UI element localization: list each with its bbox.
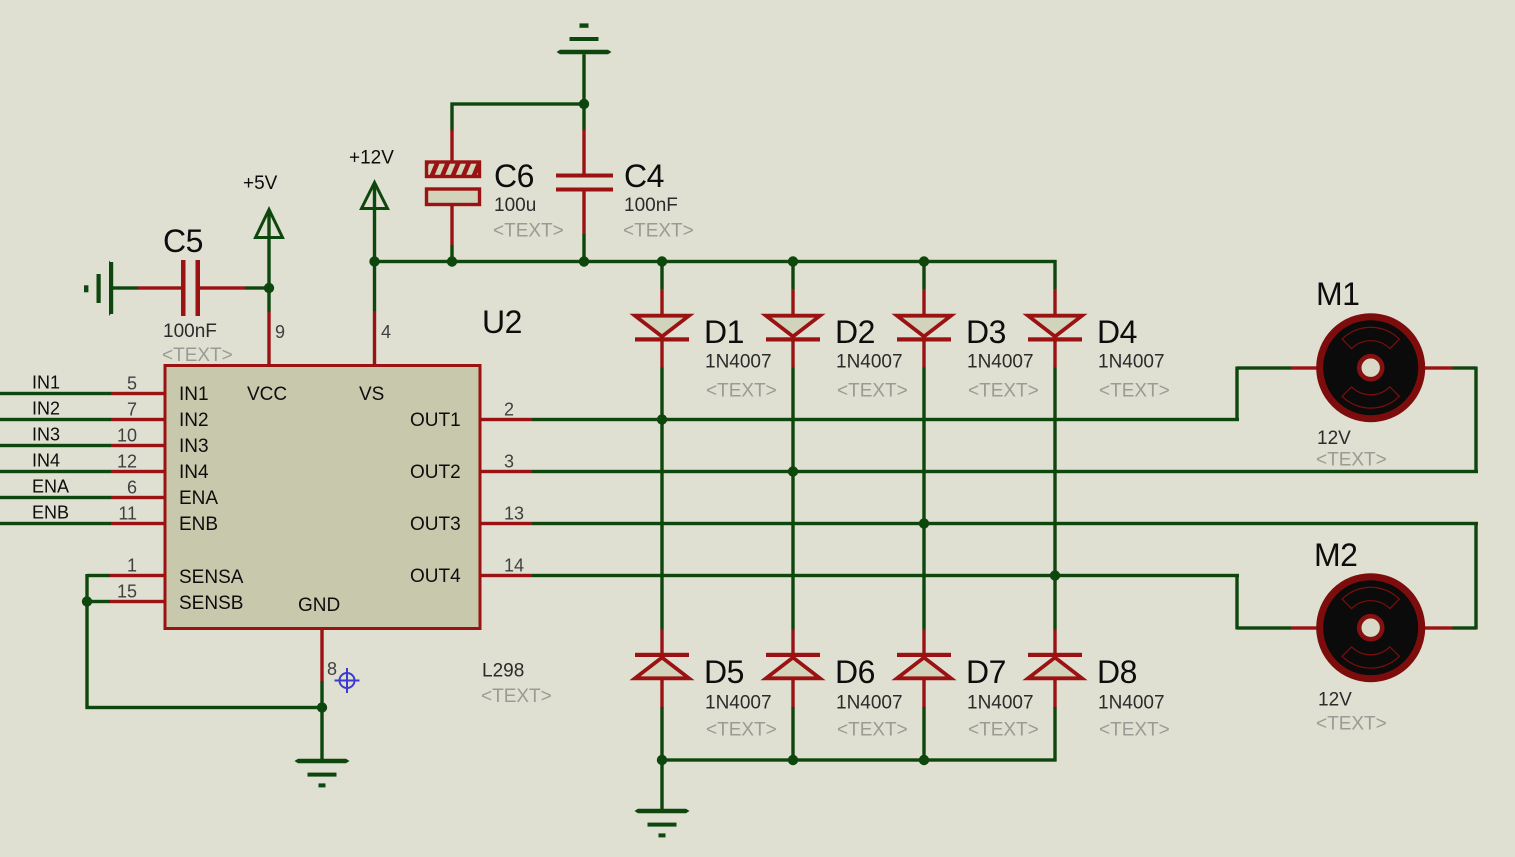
- svg-text:1N4007: 1N4007: [705, 693, 772, 714]
- svg-text:12: 12: [117, 452, 137, 472]
- wire: GND pin 8 down: [320, 630, 323, 709]
- svg-text:1N4007: 1N4007: [1098, 693, 1165, 714]
- svg-text:C6: C6: [494, 158, 534, 194]
- M1 <TEXT> property: [1316, 450, 1387, 471]
- wire: D1 cathode down column: [660, 342, 663, 630]
- svg-text:6: 6: [127, 478, 137, 498]
- svg-text:VS: VS: [359, 384, 384, 405]
- wire: C6 top lead (red): [450, 130, 453, 163]
- M2 refdes label: [1314, 537, 1357, 573]
- pin number 5: [127, 374, 137, 394]
- svg-text:<TEXT>: <TEXT>: [481, 686, 552, 707]
- wire: +12V top bus: [373, 260, 1057, 263]
- junction: C4 to +12V bus: [579, 256, 589, 266]
- D7 <TEXT> property: [968, 720, 1039, 741]
- C5 refdes label: [163, 223, 203, 259]
- junction: D1 anode to +12V bus: [657, 256, 667, 266]
- svg-text:ENA: ENA: [32, 477, 69, 497]
- D8 <TEXT> property: [1099, 720, 1170, 741]
- svg-text:100u: 100u: [494, 195, 536, 216]
- junction: C5 to +5V: [264, 283, 274, 293]
- diode D1 (1N4007): [635, 316, 689, 342]
- wire: GND net to ground symbol: [320, 706, 323, 760]
- D3 value label 1N4007: [967, 352, 1034, 373]
- C4 <TEXT> property: [623, 221, 694, 242]
- U2 refdes label: [482, 304, 522, 340]
- net label IN1: [32, 373, 60, 393]
- wire: ground to C5 left plate: [113, 286, 182, 289]
- svg-text:12V: 12V: [1317, 428, 1351, 449]
- wire: top bus to D1: [660, 260, 663, 316]
- svg-text:<TEXT>: <TEXT>: [968, 720, 1039, 741]
- motor M2: [1320, 577, 1422, 679]
- junction: top node at C6/C4 branch: [579, 99, 589, 109]
- diode D5 (1N4007): [635, 653, 689, 679]
- svg-text:+12V: +12V: [349, 148, 394, 169]
- D2 refdes label: [835, 314, 875, 350]
- svg-text:<TEXT>: <TEXT>: [1316, 714, 1387, 735]
- wire: top bus to D2: [791, 260, 794, 316]
- wire: column to D6 cathode: [791, 630, 794, 654]
- wire: D3 cathode down column: [922, 342, 925, 630]
- wire: net IN4 into pin 12: [0, 470, 165, 473]
- svg-text:15: 15: [117, 582, 137, 602]
- svg-text:GND: GND: [298, 595, 340, 616]
- junction: column D1/D5 to OUT row: [657, 414, 667, 424]
- D8 refdes label: [1097, 654, 1137, 690]
- svg-text:13: 13: [504, 504, 524, 524]
- +5V label: [243, 173, 278, 194]
- pin number 3 (OUT2): [504, 452, 514, 472]
- svg-text:IN4: IN4: [179, 462, 209, 483]
- svg-text:5: 5: [127, 374, 137, 394]
- wire: C4 top lead: [582, 104, 585, 174]
- ground (below D5): [635, 809, 690, 838]
- svg-text:OUT2: OUT2: [410, 462, 461, 483]
- M1 value label 12V: [1317, 428, 1351, 449]
- power +12V symbol: [362, 183, 388, 209]
- net label IN3: [32, 425, 60, 445]
- junction: column D3/D7 to OUT row: [919, 518, 929, 528]
- svg-text:OUT3: OUT3: [410, 514, 461, 535]
- svg-text:D4: D4: [1097, 314, 1137, 350]
- wire: D4 cathode down column: [1053, 342, 1056, 630]
- C6 refdes label: [494, 158, 534, 194]
- origin marker (blue): [335, 668, 360, 693]
- junction: D7 to lower ground bus: [919, 755, 929, 765]
- wire: D2 cathode down column: [791, 342, 794, 630]
- pin number 6: [127, 478, 137, 498]
- svg-text:ENA: ENA: [179, 488, 218, 509]
- svg-text:C4: C4: [624, 158, 664, 194]
- svg-text:<TEXT>: <TEXT>: [1099, 720, 1170, 741]
- svg-text:D6: D6: [835, 654, 875, 690]
- pin number 7: [127, 400, 137, 420]
- svg-text:D7: D7: [966, 654, 1006, 690]
- wire: column to D8 cathode: [1053, 630, 1056, 654]
- capacitor C4 (100nF): [556, 174, 613, 192]
- svg-text:1N4007: 1N4007: [967, 352, 1034, 373]
- pin number 4 (VS): [381, 322, 391, 342]
- wire: top bus to D3: [922, 260, 925, 316]
- svg-text:ENB: ENB: [179, 514, 218, 535]
- wire: column to D5 cathode: [660, 630, 663, 654]
- pin number 10: [117, 426, 137, 446]
- D4 value label 1N4007: [1098, 352, 1165, 373]
- D4 <TEXT> property: [1099, 381, 1170, 402]
- svg-text:1N4007: 1N4007: [1098, 352, 1165, 373]
- diode D3 (1N4007): [897, 316, 951, 342]
- ground (top, above C4): [557, 23, 612, 54]
- D2 <TEXT> property: [837, 381, 908, 402]
- svg-text:11: 11: [118, 504, 137, 524]
- capacitor C6 (100u electrolytic): [420, 160, 491, 205]
- wire: SENSB pin 15: [87, 600, 165, 603]
- svg-text:IN2: IN2: [32, 399, 60, 419]
- diode D4 (1N4007): [1028, 316, 1082, 342]
- svg-text:3: 3: [504, 452, 514, 472]
- svg-text:VCC: VCC: [247, 384, 287, 405]
- C6 <TEXT> property: [493, 221, 564, 242]
- svg-text:12V: 12V: [1318, 690, 1352, 711]
- junction: column D2/D6 to OUT row: [788, 466, 798, 476]
- diode D6 (1N4007): [766, 653, 820, 679]
- wire: lower ground bus: [661, 758, 1057, 761]
- D4 refdes label: [1097, 314, 1137, 350]
- pin number 8 (GND): [327, 659, 337, 679]
- svg-text:100nF: 100nF: [624, 195, 678, 216]
- U2 pin name labels: [179, 384, 461, 616]
- svg-text:1N4007: 1N4007: [836, 352, 903, 373]
- pin number 15 (SENSB): [117, 582, 137, 602]
- svg-text:<TEXT>: <TEXT>: [706, 720, 777, 741]
- D3 <TEXT> property: [968, 381, 1039, 402]
- D1 <TEXT> property: [706, 381, 777, 402]
- D5 value label 1N4007: [705, 693, 772, 714]
- C4 refdes label: [624, 158, 664, 194]
- junction: C6 to +12V bus: [447, 256, 457, 266]
- svg-text:IN3: IN3: [32, 425, 60, 445]
- wire: C6 bottom lead: [450, 206, 453, 262]
- wire: OUT2 pin 3 to M1 right: [480, 366, 1478, 473]
- diode D7 (1N4007): [897, 653, 951, 679]
- M2 value label 12V: [1318, 690, 1352, 711]
- svg-text:D5: D5: [704, 654, 744, 690]
- net label IN2: [32, 399, 60, 419]
- net label IN4: [32, 451, 60, 471]
- svg-text:M1: M1: [1316, 276, 1359, 312]
- wire: column to D7 cathode: [922, 630, 925, 654]
- wire: OUT4 pin 14 to M2 left: [480, 574, 1320, 630]
- svg-text:D1: D1: [704, 314, 744, 350]
- svg-text:<TEXT>: <TEXT>: [1099, 381, 1170, 402]
- svg-text:<TEXT>: <TEXT>: [493, 221, 564, 242]
- C5 value label 100nF: [163, 321, 217, 342]
- wire: C4 bottom lead: [582, 192, 585, 264]
- svg-text:L298: L298: [482, 661, 524, 682]
- junction: D2 anode to +12V bus: [788, 256, 798, 266]
- wire: D5 anode to lower bus: [660, 679, 663, 762]
- pin number 2 (OUT1): [504, 400, 514, 420]
- wire: +5V down to VCC pin 9: [267, 212, 270, 365]
- M1 refdes label: [1316, 276, 1359, 312]
- power +5V symbol: [256, 210, 283, 238]
- svg-text:U2: U2: [482, 304, 522, 340]
- wire: net IN1 into pin 5: [0, 392, 165, 395]
- M2 <TEXT> property: [1316, 714, 1387, 735]
- wire: SENSA pin 1: [85, 574, 165, 603]
- D1 value label 1N4007: [705, 352, 772, 373]
- D2 value label 1N4007: [836, 352, 903, 373]
- pin number 1 (SENSA): [127, 556, 137, 576]
- D5 refdes label: [704, 654, 744, 690]
- wire: D8 anode to lower bus: [1053, 679, 1056, 762]
- op-amp / driver IC U2 body: [165, 366, 480, 629]
- pin number 12: [117, 452, 137, 472]
- wire: net ENA into pin 6: [0, 496, 165, 499]
- svg-text:1N4007: 1N4007: [705, 352, 772, 373]
- svg-text:8: 8: [327, 659, 337, 679]
- svg-text:<TEXT>: <TEXT>: [162, 345, 233, 366]
- pin number 13 (OUT3): [504, 504, 524, 524]
- D7 value label 1N4007: [967, 693, 1034, 714]
- wire: D7 anode to lower bus: [922, 679, 925, 762]
- U2 value label L298: [482, 661, 524, 682]
- svg-text:OUT1: OUT1: [410, 410, 461, 431]
- junction: D6 to lower ground bus: [788, 755, 798, 765]
- svg-text:SENSA: SENSA: [179, 567, 244, 588]
- D1 refdes label: [704, 314, 744, 350]
- svg-text:<TEXT>: <TEXT>: [837, 381, 908, 402]
- junction: GND net: [317, 702, 327, 712]
- svg-text:2: 2: [504, 400, 514, 420]
- U2 <TEXT> property: [481, 686, 552, 707]
- svg-text:<TEXT>: <TEXT>: [706, 381, 777, 402]
- svg-text:1N4007: 1N4007: [967, 693, 1034, 714]
- svg-text:D3: D3: [966, 314, 1006, 350]
- junction: +12V to top bus: [369, 256, 379, 266]
- svg-text:10: 10: [117, 426, 137, 446]
- wire: SENS net down and across to GND net: [85, 600, 323, 709]
- net label ENB: [32, 503, 69, 523]
- +12V label: [349, 148, 394, 169]
- junction: D3 anode to +12V bus: [919, 256, 929, 266]
- svg-text:IN4: IN4: [32, 451, 60, 471]
- wire: net ENB into pin 11: [0, 522, 165, 525]
- C5 <TEXT> property: [162, 345, 233, 366]
- svg-text:IN1: IN1: [179, 384, 209, 405]
- svg-text:1N4007: 1N4007: [836, 693, 903, 714]
- wire: +12V down to VS pin 4: [373, 186, 376, 365]
- svg-text:ENB: ENB: [32, 503, 69, 523]
- svg-text:100nF: 100nF: [163, 321, 217, 342]
- wire: lower bus to ground symbol: [660, 760, 663, 809]
- svg-text:M2: M2: [1314, 537, 1357, 573]
- svg-text:D2: D2: [835, 314, 875, 350]
- wire: C5 right plate to +5V: [200, 286, 269, 289]
- junction: column D4/D8 to OUT row: [1050, 570, 1060, 580]
- diode D8 (1N4007): [1028, 653, 1082, 679]
- svg-text:9: 9: [275, 322, 285, 342]
- wire: node across to C6 branch: [450, 102, 585, 130]
- C6 value label 100u: [494, 195, 536, 216]
- ground (left of C5): [84, 261, 113, 317]
- svg-text:+5V: +5V: [243, 173, 278, 194]
- svg-text:4: 4: [381, 322, 391, 342]
- svg-text:<TEXT>: <TEXT>: [623, 221, 694, 242]
- D6 value label 1N4007: [836, 693, 903, 714]
- svg-text:IN1: IN1: [32, 373, 60, 393]
- wire: top ground down to node: [582, 54, 585, 104]
- pin number 11: [118, 504, 137, 524]
- svg-text:C5: C5: [163, 223, 203, 259]
- D6 refdes label: [835, 654, 875, 690]
- junction: D5 to lower ground bus: [657, 755, 667, 765]
- svg-text:<TEXT>: <TEXT>: [837, 720, 908, 741]
- svg-text:<TEXT>: <TEXT>: [1316, 450, 1387, 471]
- pin number 9 (VCC): [275, 322, 285, 342]
- wire: OUT3 pin 13 to M2 right: [480, 522, 1478, 630]
- D8 value label 1N4007: [1098, 693, 1165, 714]
- svg-text:OUT4: OUT4: [410, 566, 461, 587]
- svg-text:IN2: IN2: [179, 410, 209, 431]
- wire: net IN2 into pin 7: [0, 418, 165, 421]
- wire: OUT1 pin 2 to M1 left: [480, 366, 1320, 421]
- svg-text:14: 14: [504, 556, 524, 576]
- D7 refdes label: [966, 654, 1006, 690]
- svg-text:D8: D8: [1097, 654, 1137, 690]
- wire: D6 anode to lower bus: [791, 679, 794, 762]
- D5 <TEXT> property: [706, 720, 777, 741]
- svg-text:IN3: IN3: [179, 436, 209, 457]
- D3 refdes label: [966, 314, 1006, 350]
- pin number 14 (OUT4): [504, 556, 524, 576]
- diode D2 (1N4007): [766, 316, 820, 342]
- C4 value label 100nF: [624, 195, 678, 216]
- svg-text:1: 1: [127, 556, 137, 576]
- capacitor C5 (100nF): [181, 260, 200, 316]
- motor M1: [1320, 317, 1422, 419]
- svg-text:SENSB: SENSB: [179, 593, 243, 614]
- wire: top bus to D4: [1053, 260, 1056, 316]
- D6 <TEXT> property: [837, 720, 908, 741]
- junction: SENS net: [82, 596, 92, 606]
- wire: net IN3 into pin 10: [0, 444, 165, 447]
- svg-text:7: 7: [127, 400, 137, 420]
- net label ENA: [32, 477, 69, 497]
- ground (below U2): [295, 759, 350, 788]
- svg-text:<TEXT>: <TEXT>: [968, 381, 1039, 402]
